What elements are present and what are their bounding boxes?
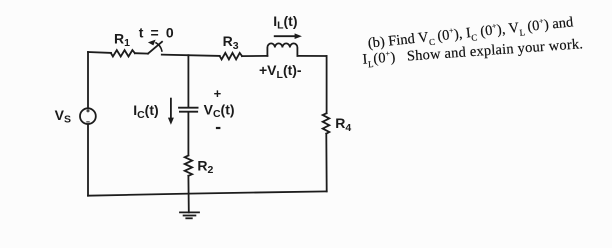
svg-text:R4: R4 xyxy=(335,115,351,134)
svg-text:+: + xyxy=(214,86,222,101)
svg-text:R3: R3 xyxy=(223,33,239,52)
svg-text:VS: VS xyxy=(55,107,71,126)
svg-text:VC(t): VC(t) xyxy=(204,101,235,120)
svg-text:R2: R2 xyxy=(197,157,213,176)
svg-text:IC(t): IC(t) xyxy=(133,102,158,121)
svg-text:IL(t): IL(t) xyxy=(273,13,297,32)
svg-text:R1: R1 xyxy=(114,30,130,49)
svg-text:+VL(t)-: +VL(t)- xyxy=(259,62,302,81)
svg-text:t = 0: t = 0 xyxy=(139,24,175,40)
